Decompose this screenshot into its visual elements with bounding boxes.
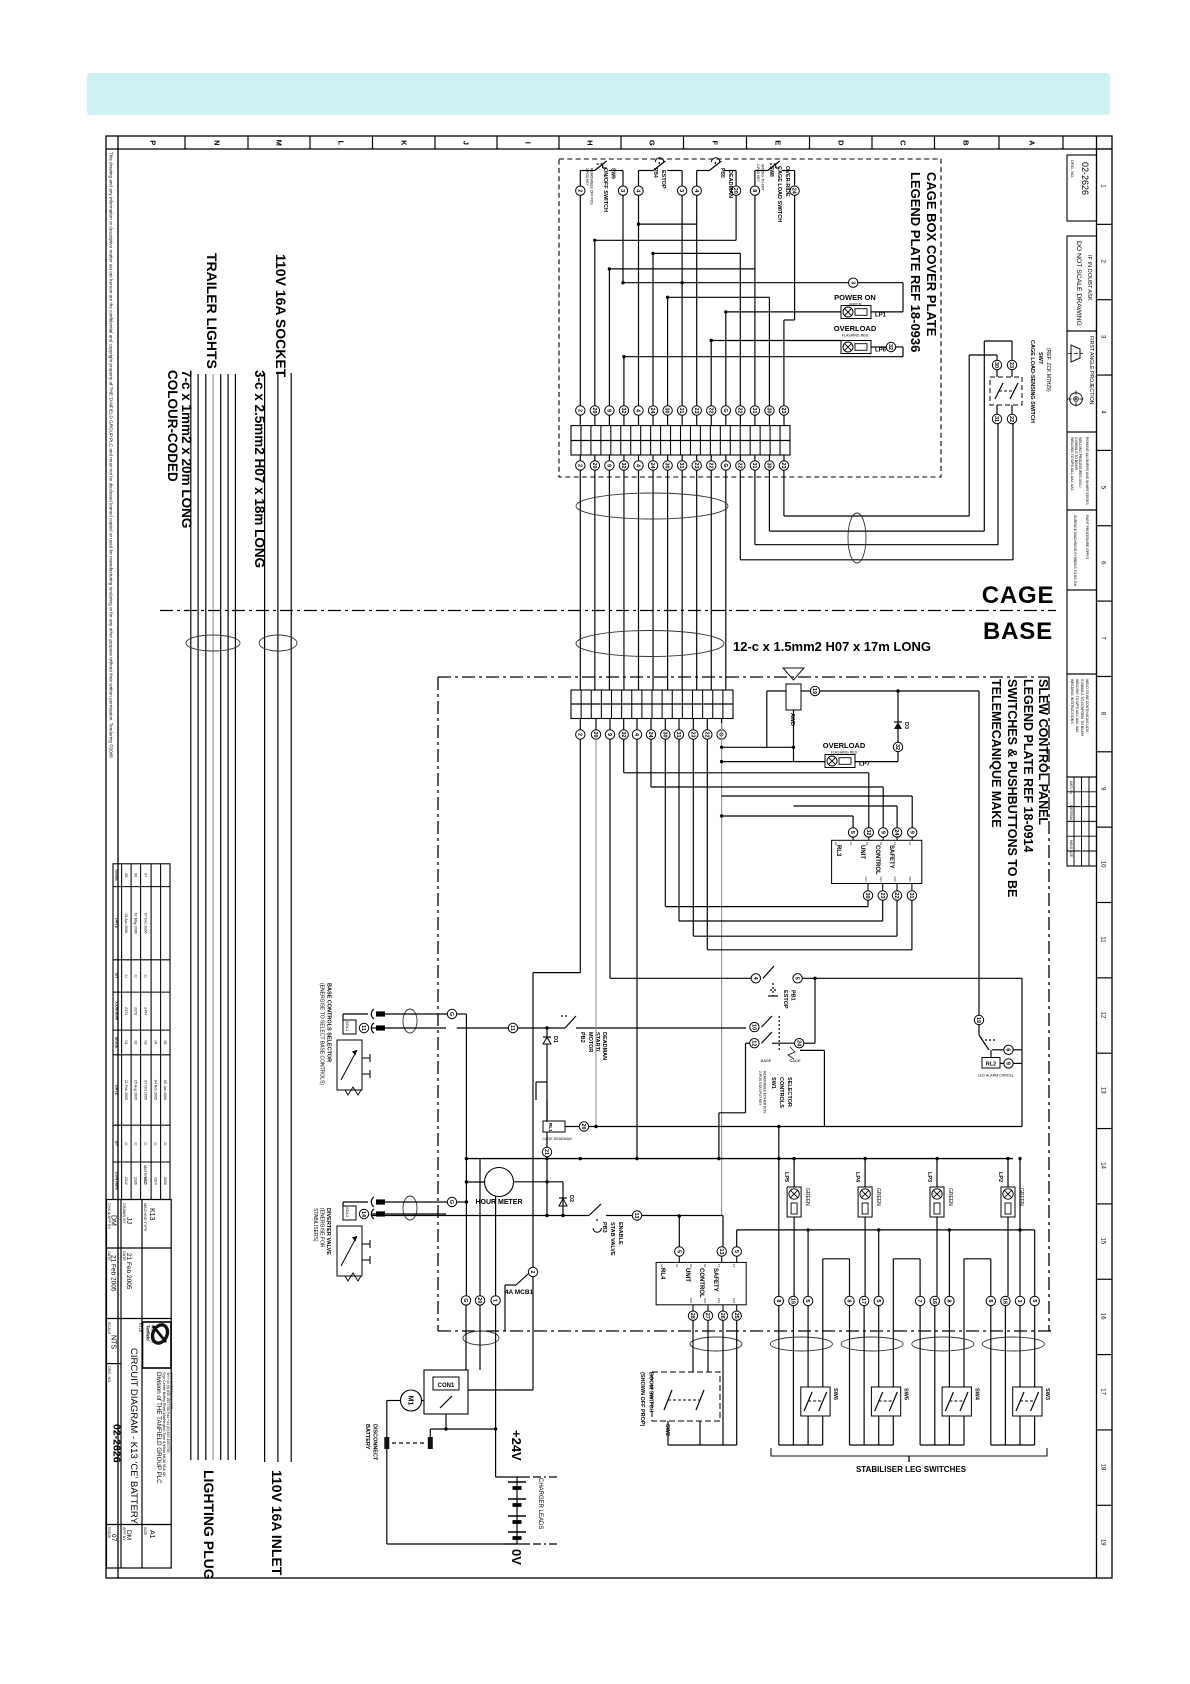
svg-text:OVERLOAD: OVERLOAD bbox=[834, 324, 877, 333]
svg-text:BY: BY bbox=[115, 973, 119, 979]
svg-text:SIZE: SIZE bbox=[143, 1527, 147, 1536]
svg-text:TITLE: TITLE bbox=[138, 1322, 142, 1333]
svg-text:13: 13 bbox=[1099, 1087, 1105, 1094]
svg-text:9: 9 bbox=[606, 733, 612, 736]
svg-text:S34: S34 bbox=[879, 877, 883, 883]
svg-text:G: G bbox=[718, 732, 724, 736]
svg-text:CON Num: CON Num bbox=[115, 1172, 119, 1191]
svg-text:ENABLE: ENABLE bbox=[617, 1222, 623, 1245]
svg-text:WELDING TO WPS AA1, AA2, AA3: WELDING TO WPS AA1, AA2, AA3 bbox=[1075, 679, 1079, 733]
svg-text:JJ: JJ bbox=[124, 974, 128, 978]
svg-text:11: 11 bbox=[509, 1025, 515, 1031]
svg-text:32: 32 bbox=[865, 829, 871, 835]
svg-text:3: 3 bbox=[1016, 1300, 1022, 1303]
svg-text:DRG. NO.: DRG. NO. bbox=[1070, 160, 1075, 178]
svg-text:2: 2 bbox=[576, 733, 582, 736]
svg-text:DATE: DATE bbox=[115, 1085, 119, 1096]
svg-text:14: 14 bbox=[360, 1211, 366, 1217]
svg-text:E: E bbox=[773, 140, 782, 145]
svg-text:CON Num: CON Num bbox=[115, 1002, 119, 1021]
svg-text:05 Jan 2006: 05 Jan 2006 bbox=[163, 1080, 167, 1100]
svg-text:B: B bbox=[961, 140, 970, 146]
svg-text:G: G bbox=[448, 1012, 454, 1016]
svg-text:GREEN: GREEN bbox=[947, 1188, 953, 1206]
svg-text:19: 19 bbox=[1099, 1539, 1105, 1546]
svg-text:CONTROL: CONTROL bbox=[874, 845, 880, 875]
svg-text:2-POS KEY: 2-POS KEY bbox=[585, 168, 589, 187]
svg-text:SURFACE MACHINING SYMBOLS TO B: SURFACE MACHINING SYMBOLS TO BS 308 bbox=[1073, 515, 1077, 586]
svg-text:G: G bbox=[448, 1200, 454, 1204]
svg-text:GREEN: GREEN bbox=[875, 1188, 881, 1206]
svg-text:S21: S21 bbox=[908, 877, 912, 883]
svg-text:31: 31 bbox=[993, 416, 999, 422]
svg-text:REMOVE ALL BURRS AND SHARP EDG: REMOVE ALL BURRS AND SHARP EDGES. bbox=[1085, 437, 1089, 505]
svg-text:32: 32 bbox=[620, 732, 626, 738]
svg-text:2370: 2370 bbox=[133, 1007, 137, 1015]
svg-text:5: 5 bbox=[794, 977, 800, 980]
svg-text:AWD: AWD bbox=[789, 713, 795, 726]
svg-text:23: 23 bbox=[780, 408, 786, 414]
svg-text:JJ: JJ bbox=[153, 1142, 157, 1146]
svg-text:STABILISERS): STABILISERS) bbox=[312, 1208, 318, 1242]
svg-text:WELDING INSTRUCTIONS: WELDING INSTRUCTIONS bbox=[1070, 679, 1074, 724]
svg-text:S33: S33 bbox=[864, 877, 868, 883]
svg-text:8: 8 bbox=[775, 1300, 781, 1303]
svg-text:HOUR METER: HOUR METER bbox=[475, 1199, 522, 1206]
svg-text:110V 16A SOCKET: 110V 16A SOCKET bbox=[273, 254, 289, 378]
svg-text:32: 32 bbox=[894, 744, 900, 750]
svg-text:07: 07 bbox=[143, 873, 147, 877]
svg-text:(REF: ZCK M7H29): (REF: ZCK M7H29) bbox=[1045, 348, 1051, 392]
svg-text:01: 01 bbox=[124, 1040, 128, 1044]
svg-text:7: 7 bbox=[916, 1300, 922, 1303]
svg-text:SW8: SW8 bbox=[768, 166, 774, 177]
svg-text:16: 16 bbox=[931, 1298, 937, 1304]
svg-text:7-c x 1mm2 x 20m LONG: 7-c x 1mm2 x 20m LONG bbox=[179, 370, 194, 528]
svg-text:20: 20 bbox=[591, 463, 597, 469]
svg-text:6: 6 bbox=[1005, 1048, 1011, 1051]
svg-text:3: 3 bbox=[849, 281, 855, 284]
svg-text:DO NOT SCALE DRAWING: DO NOT SCALE DRAWING bbox=[1075, 241, 1082, 326]
svg-text:LP4: LP4 bbox=[854, 1172, 860, 1183]
svg-text:2324: 2324 bbox=[153, 1177, 157, 1185]
svg-text:WELDING PROCEDURES USS./: WELDING PROCEDURES USS./ bbox=[1078, 437, 1082, 488]
svg-text:SW4: SW4 bbox=[973, 1388, 979, 1401]
svg-text:2336: 2336 bbox=[133, 1177, 137, 1185]
svg-text:31: 31 bbox=[751, 463, 757, 469]
svg-text:ISSUE: ISSUE bbox=[115, 869, 119, 881]
svg-text:SAFETY: SAFETY bbox=[712, 1268, 718, 1292]
svg-text:D3: D3 bbox=[903, 722, 909, 729]
svg-text:2325: 2325 bbox=[143, 1177, 147, 1185]
svg-text:1: 1 bbox=[492, 1299, 498, 1302]
svg-text:24: 24 bbox=[649, 463, 655, 469]
svg-text:07: 07 bbox=[110, 1534, 117, 1542]
svg-text:Division of THE TANFIELD GROUP: Division of THE TANFIELD GROUP PLC bbox=[155, 1372, 162, 1484]
svg-text:H: H bbox=[585, 140, 594, 145]
svg-text:BASE: BASE bbox=[761, 1058, 772, 1063]
svg-text:GREEN: GREEN bbox=[1018, 1188, 1024, 1206]
svg-text:DM: DM bbox=[110, 1215, 117, 1226]
svg-text:ON/OFF SWITCH: ON/OFF SWITCH bbox=[602, 168, 608, 212]
svg-text:G: G bbox=[722, 463, 728, 467]
svg-text:COLOUR-CODED: COLOUR-CODED bbox=[165, 370, 180, 482]
svg-text:10: 10 bbox=[1099, 861, 1105, 868]
svg-text:DEADMAN: DEADMAN bbox=[601, 1032, 607, 1060]
svg-text:4: 4 bbox=[635, 409, 641, 412]
svg-text:30: 30 bbox=[766, 463, 772, 469]
svg-text:31: 31 bbox=[678, 408, 684, 414]
svg-text:13: 13 bbox=[732, 1264, 736, 1268]
svg-text:31: 31 bbox=[908, 893, 914, 899]
svg-text:9: 9 bbox=[1005, 1062, 1011, 1065]
svg-text:MACHINE TYPE: MACHINE TYPE bbox=[143, 1203, 147, 1232]
svg-text:ESTOP: ESTOP bbox=[782, 990, 788, 1009]
svg-text:N: N bbox=[212, 140, 221, 145]
svg-text:5: 5 bbox=[849, 831, 855, 834]
svg-text:9: 9 bbox=[605, 464, 611, 467]
svg-text:S33: S33 bbox=[689, 1298, 693, 1304]
svg-text:SPRING-TO-OFF: SPRING-TO-OFF bbox=[761, 164, 765, 191]
svg-text:2: 2 bbox=[576, 189, 582, 192]
svg-text:PB5: PB5 bbox=[719, 168, 725, 178]
svg-text:02: 02 bbox=[133, 1040, 137, 1044]
svg-text:CAGE: CAGE bbox=[789, 1058, 801, 1063]
svg-text:REMOVABLE OFF POS: REMOVABLE OFF POS bbox=[590, 168, 594, 205]
svg-text:5: 5 bbox=[1031, 1300, 1037, 1303]
svg-text:SW1: SW1 bbox=[770, 1077, 776, 1089]
svg-text:S12: S12 bbox=[893, 877, 897, 883]
svg-text:G: G bbox=[647, 140, 656, 146]
svg-text:23: 23 bbox=[689, 732, 695, 738]
svg-text:24: 24 bbox=[893, 829, 899, 835]
svg-text:MOTOR: MOTOR bbox=[587, 1032, 593, 1052]
svg-text:4: 4 bbox=[635, 464, 641, 467]
svg-text:A: A bbox=[1027, 140, 1036, 146]
svg-text:CON1: CON1 bbox=[438, 1383, 455, 1389]
svg-text:07 Oct 2005: 07 Oct 2005 bbox=[143, 1080, 147, 1100]
svg-text:30: 30 bbox=[661, 732, 667, 738]
svg-text:CONTROLS: CONTROLS bbox=[778, 1077, 784, 1108]
svg-text:31: 31 bbox=[751, 408, 757, 414]
svg-text:WELD SIZE: WELD SIZE bbox=[1069, 840, 1073, 857]
svg-text:SOL2: SOL2 bbox=[345, 1207, 350, 1218]
svg-text:JJ: JJ bbox=[133, 974, 137, 978]
svg-text:P: P bbox=[148, 140, 157, 145]
svg-text:SLEW CONTROL PANEL: SLEW CONTROL PANEL bbox=[1036, 679, 1050, 825]
svg-text:20: 20 bbox=[591, 408, 597, 414]
svg-text:22: 22 bbox=[893, 893, 899, 899]
svg-text:ESTOP: ESTOP bbox=[660, 170, 666, 189]
svg-text:5: 5 bbox=[875, 1300, 881, 1303]
svg-text:02 May 2006: 02 May 2006 bbox=[133, 913, 137, 934]
svg-text:05: 05 bbox=[124, 873, 128, 877]
svg-text:BASE: BASE bbox=[983, 618, 1053, 645]
svg-text:LIGHTING PLUG: LIGHTING PLUG bbox=[201, 1470, 217, 1580]
svg-text:(SHOWN OFF PROP): (SHOWN OFF PROP) bbox=[639, 1372, 645, 1427]
svg-text:23: 23 bbox=[693, 408, 699, 414]
svg-text:2: 2 bbox=[576, 464, 582, 467]
svg-text:POWER ON: POWER ON bbox=[834, 293, 876, 302]
svg-text:PB4: PB4 bbox=[652, 168, 658, 178]
svg-text:+24V: +24V bbox=[509, 1430, 524, 1461]
svg-text:12: 12 bbox=[750, 1040, 756, 1046]
svg-text:12-c x 1.5mm2 H07 x 17m LONG: 12-c x 1.5mm2 H07 x 17m LONG bbox=[733, 639, 931, 654]
svg-text:20: 20 bbox=[476, 1297, 482, 1303]
svg-text:JJ: JJ bbox=[163, 1142, 167, 1146]
svg-text:CONTROL: CONTROL bbox=[698, 1268, 704, 1298]
svg-text:24: 24 bbox=[649, 408, 655, 414]
svg-text:JJ: JJ bbox=[124, 1142, 128, 1146]
svg-text:23: 23 bbox=[879, 893, 885, 899]
svg-text:15: 15 bbox=[1099, 1238, 1105, 1245]
svg-text:SWITCHES & PUSHBUTTONS TO BE: SWITCHES & PUSHBUTTONS TO BE bbox=[1005, 679, 1019, 897]
svg-text:FLASHING RED: FLASHING RED bbox=[842, 334, 869, 338]
svg-text:11: 11 bbox=[360, 1025, 366, 1031]
svg-text:CHARGER LEADS: CHARGER LEADS bbox=[537, 1478, 543, 1529]
svg-text:21: 21 bbox=[543, 1149, 549, 1155]
svg-text:SELECTOR: SELECTOR bbox=[786, 1077, 792, 1107]
svg-text:A1: A1 bbox=[675, 1264, 679, 1268]
svg-text:TELEMECANIQUE MAKE: TELEMECANIQUE MAKE bbox=[989, 679, 1003, 828]
svg-text:SCALE: SCALE bbox=[107, 1322, 111, 1335]
svg-text:D: D bbox=[836, 140, 845, 146]
svg-text:SYMBOLS TO BS499: SYMBOLS TO BS499 bbox=[1074, 437, 1078, 470]
svg-text:21 Feb 2005: 21 Feb 2005 bbox=[125, 1253, 132, 1290]
svg-text:02-2626: 02-2626 bbox=[1080, 162, 1090, 195]
svg-text:LP1: LP1 bbox=[875, 313, 887, 319]
svg-text:SW6: SW6 bbox=[832, 1388, 838, 1400]
svg-text:01 Apr 2006: 01 Apr 2006 bbox=[124, 914, 128, 933]
svg-text:15 Aug 2005: 15 Aug 2005 bbox=[133, 1080, 137, 1100]
svg-text:3: 3 bbox=[619, 189, 625, 192]
svg-text:4: 4 bbox=[693, 189, 699, 192]
svg-text:04 Nov 2005: 04 Nov 2005 bbox=[153, 1080, 157, 1100]
svg-text:07 Dec 2006: 07 Dec 2006 bbox=[143, 913, 147, 933]
svg-text:21 Feb 2005: 21 Feb 2005 bbox=[124, 1080, 128, 1100]
svg-text:LP7: LP7 bbox=[859, 762, 871, 768]
svg-text:SYMBOLS TO CONFORM TO BS499: SYMBOLS TO CONFORM TO BS499 bbox=[1080, 679, 1084, 736]
svg-text:2372: 2372 bbox=[124, 1007, 128, 1015]
svg-text:MATL No: MATL No bbox=[1069, 781, 1073, 794]
svg-text:DATE: DATE bbox=[115, 918, 119, 929]
svg-text:17: 17 bbox=[860, 1298, 866, 1304]
svg-text:MATERIAL: MATERIAL bbox=[1069, 805, 1073, 821]
svg-text:SOL1: SOL1 bbox=[345, 1021, 350, 1032]
svg-text:S21: S21 bbox=[732, 1298, 736, 1304]
svg-text:03: 03 bbox=[143, 1040, 147, 1044]
svg-text:2454: 2454 bbox=[143, 1007, 147, 1015]
svg-text:FLASHING RED: FLASHING RED bbox=[831, 751, 858, 755]
svg-text:31: 31 bbox=[675, 732, 681, 738]
svg-text:2-POS KEY: 2-POS KEY bbox=[756, 164, 760, 183]
svg-text:D1: D1 bbox=[552, 1036, 558, 1043]
svg-text:(ENERGISE FOR: (ENERGISE FOR bbox=[319, 1208, 325, 1248]
svg-text:23: 23 bbox=[1008, 362, 1014, 368]
svg-text:13: 13 bbox=[718, 1249, 724, 1255]
svg-text:LEGEND PLATE REF 18-0936: LEGEND PLATE REF 18-0936 bbox=[908, 172, 923, 352]
svg-text:FIRST ANGLE PROJECTION: FIRST ANGLE PROJECTION bbox=[1088, 336, 1094, 405]
svg-text:G: G bbox=[722, 408, 728, 412]
svg-text:2: 2 bbox=[529, 1271, 535, 1274]
svg-text:A1: A1 bbox=[849, 842, 853, 846]
svg-text:5: 5 bbox=[733, 1250, 739, 1253]
svg-text:M: M bbox=[274, 140, 283, 146]
svg-text:6: 6 bbox=[987, 1300, 993, 1303]
svg-text:02-2626: 02-2626 bbox=[111, 1424, 123, 1463]
svg-text:11: 11 bbox=[1099, 936, 1105, 943]
svg-text:05: 05 bbox=[163, 1040, 167, 1044]
svg-text:4: 4 bbox=[633, 733, 639, 736]
svg-text:0V: 0V bbox=[509, 1549, 524, 1565]
svg-text:ISSUE: ISSUE bbox=[115, 1037, 119, 1049]
svg-text:DISCONNECT: DISCONNECT bbox=[372, 1424, 378, 1461]
svg-text:26: 26 bbox=[719, 1313, 725, 1319]
svg-text:K: K bbox=[399, 140, 408, 146]
svg-text:F: F bbox=[710, 141, 719, 146]
svg-text:DEADMAN: DEADMAN bbox=[727, 170, 733, 198]
svg-text:SW3: SW3 bbox=[1044, 1388, 1050, 1400]
svg-text:BY: BY bbox=[115, 1141, 119, 1147]
svg-text:CAGE LOAD-SENSING SWITCH: CAGE LOAD-SENSING SWITCH bbox=[1029, 340, 1035, 423]
svg-text:LP5: LP5 bbox=[783, 1172, 789, 1182]
svg-text:5: 5 bbox=[804, 1300, 810, 1303]
svg-text:JJ: JJ bbox=[125, 1217, 132, 1224]
svg-text:9: 9 bbox=[605, 409, 611, 412]
svg-text:CAGE LOAD SWITCH: CAGE LOAD SWITCH bbox=[776, 166, 782, 222]
svg-text:LP2: LP2 bbox=[997, 1172, 1003, 1182]
svg-text:16: 16 bbox=[1099, 1313, 1105, 1320]
svg-text:21 Feb 2005: 21 Feb 2005 bbox=[110, 1255, 117, 1292]
svg-text:TRAILER LIGHTS: TRAILER LIGHTS bbox=[204, 253, 220, 369]
svg-text:PB2: PB2 bbox=[579, 1032, 585, 1043]
svg-text:I: I bbox=[523, 142, 532, 144]
svg-text:06: 06 bbox=[133, 873, 137, 877]
svg-text:22: 22 bbox=[736, 408, 742, 414]
svg-text:This drawing and any informati: This drawing and any information or desc… bbox=[109, 152, 115, 758]
svg-text:32: 32 bbox=[620, 408, 626, 414]
svg-text:RL4: RL4 bbox=[659, 1268, 665, 1280]
svg-text:Vigo Centre Birtley Road Washi: Vigo Centre Birtley Road Washington Tyne… bbox=[162, 1372, 166, 1478]
svg-text:CIRCUIT DIAGRAM - K13 ‘CE’ BAT: CIRCUIT DIAGRAM - K13 ‘CE’ BATTERY bbox=[128, 1348, 139, 1525]
svg-text:2-POS STAY-PUT KEY: 2-POS STAY-PUT KEY bbox=[758, 1071, 762, 1106]
svg-text:CAGE: CAGE bbox=[982, 582, 1055, 609]
svg-text:RL1: RL1 bbox=[548, 1123, 553, 1132]
svg-text:4: 4 bbox=[752, 977, 758, 980]
svg-text:S12: S12 bbox=[717, 1298, 721, 1304]
svg-text:22: 22 bbox=[1008, 416, 1014, 422]
svg-text:Tel +44 (0) 845 1557755 Fax: Tel +44 (0) 845 1557755 Fax +44 (0) 845 … bbox=[166, 1372, 170, 1453]
svg-text:NTS: NTS bbox=[110, 1335, 117, 1349]
svg-text:REMOVABLE EITHER POS: REMOVABLE EITHER POS bbox=[763, 1071, 767, 1114]
svg-text:RL3: RL3 bbox=[835, 845, 841, 857]
svg-text:110V 16A INLET: 110V 16A INLET bbox=[269, 1470, 285, 1576]
svg-text:D2: D2 bbox=[568, 1195, 574, 1202]
svg-text:PAINT PROCEDURE GPP03: PAINT PROCEDURE GPP03 bbox=[1085, 515, 1089, 559]
svg-text:16: 16 bbox=[1001, 1298, 1007, 1304]
svg-text:SW2: SW2 bbox=[664, 1424, 670, 1436]
svg-text:OVER-RIDE: OVER-RIDE bbox=[784, 166, 790, 197]
svg-text:19: 19 bbox=[811, 688, 817, 694]
svg-text:LED ALARM CANCEL: LED ALARM CANCEL bbox=[978, 1074, 1014, 1078]
svg-text:A1: A1 bbox=[148, 1530, 155, 1539]
svg-text:JJ: JJ bbox=[143, 974, 147, 978]
svg-text:13: 13 bbox=[908, 842, 912, 846]
svg-text:14: 14 bbox=[1099, 1162, 1105, 1169]
svg-text:BASE CONTROLS SELECTOR: BASE CONTROLS SELECTOR bbox=[326, 983, 332, 1062]
svg-text:28: 28 bbox=[689, 1313, 695, 1319]
svg-text:19: 19 bbox=[975, 1017, 981, 1023]
svg-text:32: 32 bbox=[887, 344, 893, 350]
svg-text:20: 20 bbox=[580, 1124, 586, 1130]
svg-text:SW7: SW7 bbox=[1037, 352, 1043, 364]
svg-text:Tanfield: Tanfield bbox=[146, 1325, 151, 1341]
svg-text:3: 3 bbox=[678, 189, 684, 192]
svg-text:S34: S34 bbox=[703, 1298, 707, 1304]
svg-text:10: 10 bbox=[750, 1024, 756, 1030]
svg-text:PB1: PB1 bbox=[790, 990, 796, 1001]
svg-text:SW5: SW5 bbox=[903, 1388, 909, 1400]
svg-text:5: 5 bbox=[675, 1250, 681, 1253]
svg-text:8: 8 bbox=[846, 1300, 852, 1303]
svg-text:OVERLOAD: OVERLOAD bbox=[823, 741, 866, 750]
svg-text:8: 8 bbox=[751, 189, 757, 192]
svg-text:12: 12 bbox=[1099, 1012, 1105, 1019]
svg-text:32: 32 bbox=[620, 463, 626, 469]
svg-text:J: J bbox=[461, 141, 470, 145]
svg-text:4A MCB1: 4A MCB1 bbox=[505, 1289, 534, 1296]
svg-text:22: 22 bbox=[707, 463, 713, 469]
svg-text:18: 18 bbox=[1099, 1464, 1105, 1471]
svg-text:GREEN: GREEN bbox=[804, 1188, 810, 1206]
svg-text:LEGEND PLATE REF 18-0914: LEGEND PLATE REF 18-0914 bbox=[1021, 679, 1035, 852]
svg-text:(ENERGISE TO SELECT BASE CONTR: (ENERGISE TO SELECT BASE CONTROLS) bbox=[319, 983, 325, 1085]
svg-text:L: L bbox=[336, 141, 345, 146]
svg-text:K13: K13 bbox=[148, 1208, 155, 1221]
svg-text:9: 9 bbox=[908, 831, 914, 834]
svg-text:DRG. NO.: DRG. NO. bbox=[107, 1366, 111, 1383]
svg-text:IF IN DOUBT ASK: IF IN DOUBT ASK bbox=[1086, 255, 1092, 301]
svg-text:9: 9 bbox=[879, 831, 885, 834]
svg-text:UNIT: UNIT bbox=[684, 1268, 690, 1282]
svg-text:22: 22 bbox=[703, 732, 709, 738]
svg-text:24: 24 bbox=[795, 1040, 801, 1046]
svg-text:BOOM SWITCH: BOOM SWITCH bbox=[648, 1372, 654, 1412]
svg-text:22: 22 bbox=[707, 408, 713, 414]
svg-text:8: 8 bbox=[945, 1300, 951, 1303]
svg-text:G: G bbox=[462, 1298, 468, 1302]
svg-text:31: 31 bbox=[678, 463, 684, 469]
svg-text:DIVERTER VALVE: DIVERTER VALVE bbox=[325, 1208, 331, 1255]
svg-text:13: 13 bbox=[633, 1213, 639, 1219]
svg-text:STABILISER LEG SWITCHES: STABILISER LEG SWITCHES bbox=[856, 1465, 967, 1474]
svg-text:ENGINEERING: ENGINEERING bbox=[151, 1325, 155, 1343]
svg-text:30: 30 bbox=[993, 362, 999, 368]
svg-text:30: 30 bbox=[766, 408, 772, 414]
svg-text:30: 30 bbox=[664, 408, 670, 414]
svg-text:LP3: LP3 bbox=[926, 1172, 932, 1182]
svg-text:SW9: SW9 bbox=[610, 168, 616, 179]
svg-text:PB3: PB3 bbox=[601, 1222, 607, 1233]
svg-text:JJ: JJ bbox=[133, 1142, 137, 1146]
svg-text:3000: 3000 bbox=[163, 1177, 167, 1185]
svg-text:BATTERY: BATTERY bbox=[364, 1424, 370, 1450]
svg-text:25: 25 bbox=[733, 1313, 739, 1319]
svg-text:JJ: JJ bbox=[143, 1142, 147, 1146]
svg-text:27: 27 bbox=[704, 1313, 710, 1319]
svg-text:www.tanfieldgroup.com: www.tanfieldgroup.com bbox=[170, 1372, 174, 1409]
svg-text:STAB VALVE: STAB VALVE bbox=[609, 1222, 615, 1256]
